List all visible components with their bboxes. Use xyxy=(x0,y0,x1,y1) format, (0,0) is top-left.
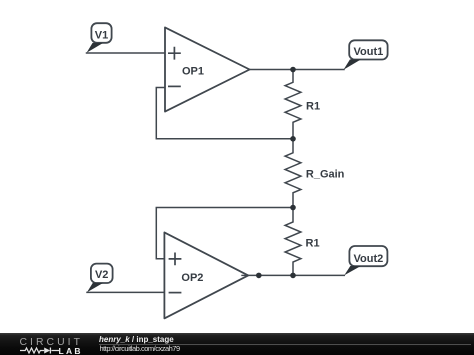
svg-text:R1: R1 xyxy=(306,101,320,113)
svg-text:Vout1: Vout1 xyxy=(354,46,384,58)
svg-text:OP1: OP1 xyxy=(182,66,204,78)
svg-text:V2: V2 xyxy=(95,269,108,281)
svg-text:R_Gain: R_Gain xyxy=(306,169,345,181)
svg-text:Vout2: Vout2 xyxy=(354,253,384,265)
svg-text:V1: V1 xyxy=(95,30,108,42)
svg-text:OP2: OP2 xyxy=(181,272,203,284)
svg-text:R1: R1 xyxy=(306,238,320,250)
